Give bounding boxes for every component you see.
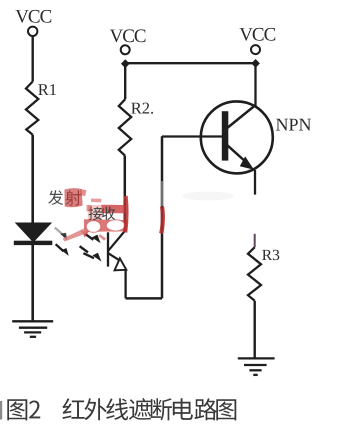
- watermark red band B with white holes: [84, 219, 127, 232]
- resistor R2: [119, 99, 131, 155]
- LED D1 emission arrow 1 (faded by watermark): [55, 228, 63, 235]
- incoming light arrow 2: [80, 246, 88, 252]
- wire VCC to collector: [254, 63, 256, 106]
- wire bottom horizontal link: [126, 297, 162, 300]
- svg-text:VCC: VCC: [15, 7, 51, 28]
- LED D1 triangle (emitter diode): [16, 223, 50, 241]
- watermark pink streak near LED arrow: [63, 228, 87, 242]
- wire emitter down (above gap): [254, 170, 256, 195]
- svg-text:VCC: VCC: [110, 26, 146, 47]
- watermark red mark over label 射: [65, 188, 83, 207]
- power terminal VCC (left) circle: [28, 27, 37, 36]
- watermark red band A right of 接收: [102, 205, 126, 213]
- svg-text:VCC: VCC: [239, 25, 275, 46]
- wire emitter resume (below gap): [254, 234, 256, 247]
- wire R3 to ground: [253, 301, 255, 358]
- ground GND1: [12, 321, 53, 337]
- power terminal VCC (middle) circle: [121, 45, 130, 54]
- svg-text:R3: R3: [262, 247, 280, 264]
- edge artifact bottom-left: [0, 401, 2, 420]
- phototransistor collector diagonal: [108, 231, 125, 251]
- transistor Q1 circle: [201, 101, 273, 173]
- watermark red tick near arrow: [98, 234, 106, 240]
- wire VCC rail (horizontal): [125, 62, 256, 64]
- svg-text:R1: R1: [38, 80, 57, 99]
- svg-text:R2.: R2.: [131, 99, 154, 118]
- faint smudge: [182, 192, 234, 201]
- phototransistor base bar: [107, 232, 109, 266]
- watermark red stroke over link wire: [161, 207, 163, 234]
- phototransistor emitter open arrowhead: [115, 258, 127, 270]
- wire VCC to R1: [32, 36, 34, 81]
- junction node (right VCC): [251, 59, 260, 68]
- transistor Q1 emitter arrowhead: [240, 156, 254, 169]
- phototransistor emitter diagonal: [108, 253, 119, 260]
- watermark red wedge below band: [82, 231, 89, 238]
- label jie-shou (receive): [89, 207, 103, 220]
- power terminal VCC (right) circle: [251, 45, 260, 54]
- transistor Q1 collector diagonal: [227, 105, 255, 128]
- wire link to NPN base: [162, 135, 222, 137]
- transistor Q1 emitter diagonal: [227, 145, 246, 162]
- wire vertical link up to NPN base: [161, 136, 164, 298]
- wire R1 to LED: [31, 135, 34, 224]
- wire LED to ground: [31, 245, 34, 321]
- transistor Q1 base bar: [222, 111, 229, 160]
- LED D1 emission arrow 2: [56, 244, 64, 251]
- resistor R1: [26, 82, 38, 135]
- wire VCC to R2: [124, 64, 126, 99]
- ground GND2: [238, 358, 275, 375]
- watermark red stroke over R2 lead: [125, 196, 126, 233]
- watermark red sliver above 接: [91, 199, 102, 203]
- wire phototransistor emitter down: [124, 270, 126, 299]
- label fa-she (emit): [48, 190, 63, 205]
- junction node (middle VCC): [121, 59, 130, 68]
- watermark red tint behind 接: [88, 205, 102, 220]
- resistor R3: [248, 247, 261, 301]
- caption: figure 2 infrared interruption circuit diagram: [7, 398, 236, 420]
- incoming light arrow 1: [81, 231, 87, 236]
- wire R2 to phototransistor collector: [124, 156, 127, 231]
- svg-text:NPN: NPN: [276, 115, 312, 135]
- LED D1 cathode bar: [14, 241, 53, 245]
